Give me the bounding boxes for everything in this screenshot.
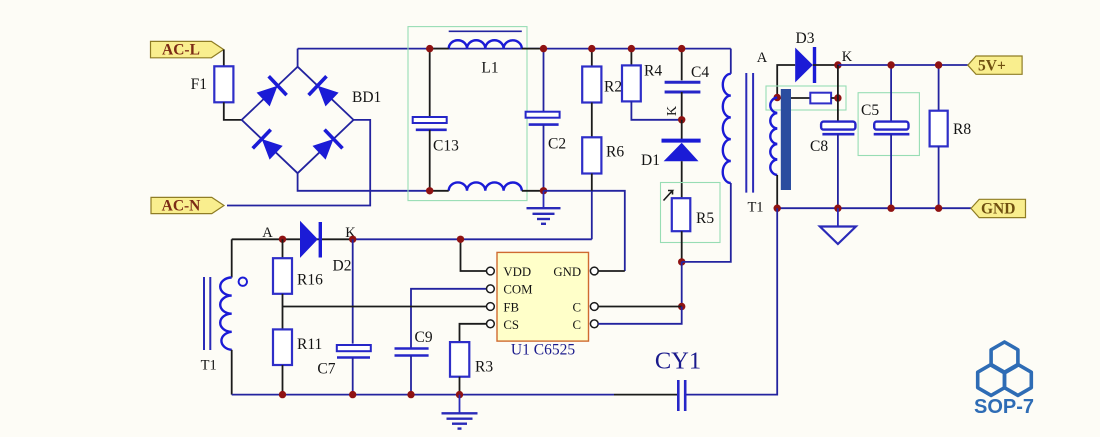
selection box around C5 bbox=[858, 93, 919, 156]
svg-text:GND: GND bbox=[981, 201, 1015, 218]
selection box around snubber resistor bbox=[766, 86, 846, 110]
bridge rectifier BD1 bbox=[242, 67, 382, 174]
junction bbox=[678, 258, 685, 265]
svg-text:C: C bbox=[573, 300, 582, 314]
svg-text:C8: C8 bbox=[810, 138, 828, 155]
ground earth under R3 bbox=[442, 395, 478, 429]
junction bbox=[588, 45, 595, 52]
svg-text:COM: COM bbox=[503, 283, 532, 297]
svg-text:D1: D1 bbox=[641, 152, 660, 169]
svg-text:K: K bbox=[842, 49, 853, 65]
svg-text:R5: R5 bbox=[696, 210, 714, 227]
junction bbox=[426, 45, 433, 52]
wire GND rail bbox=[777, 207, 971, 209]
junction bbox=[935, 61, 942, 68]
wire bbox=[223, 50, 225, 67]
selection box around L1 C13 bbox=[408, 27, 527, 201]
wire bbox=[224, 102, 242, 120]
diode BD1 top-left bbox=[257, 76, 287, 106]
junction bbox=[834, 205, 841, 212]
wire bbox=[430, 190, 449, 192]
svg-text:L1: L1 bbox=[481, 60, 498, 77]
svg-text:R11: R11 bbox=[297, 336, 322, 353]
svg-text:F1: F1 bbox=[191, 76, 207, 93]
wire bbox=[522, 190, 544, 192]
junction bbox=[887, 61, 894, 68]
port GND bbox=[971, 199, 1026, 217]
transformer T1 core bbox=[746, 73, 763, 216]
diode BD1 top-right bbox=[309, 76, 339, 106]
svg-text:C9: C9 bbox=[415, 329, 433, 346]
svg-text:R2: R2 bbox=[604, 79, 622, 96]
svg-text:AC-L: AC-L bbox=[162, 42, 200, 59]
wire K node down to C8 bbox=[837, 65, 839, 122]
svg-text:FB: FB bbox=[503, 300, 519, 314]
junction bbox=[935, 205, 942, 212]
junction bbox=[349, 391, 356, 398]
wire R2 to R6 bbox=[591, 103, 593, 138]
port AC-N bbox=[151, 197, 224, 214]
resistor R8 bbox=[930, 65, 972, 208]
wire R16 to R11 bbox=[282, 294, 284, 330]
wire bbox=[353, 238, 592, 240]
junction bbox=[540, 187, 547, 194]
svg-text:R4: R4 bbox=[644, 63, 662, 80]
wire T1 secondary top lead bbox=[777, 65, 795, 98]
svg-text:C7: C7 bbox=[317, 361, 335, 378]
wire 5V rail bbox=[838, 64, 968, 66]
transformer T1 aux winding bbox=[201, 239, 247, 394]
diode BD1 bottom-left bbox=[253, 130, 283, 160]
svg-text:K: K bbox=[665, 106, 680, 116]
logo SOP-7 bbox=[978, 342, 1032, 395]
pin C bbox=[590, 303, 598, 311]
capacitor C5 bbox=[861, 65, 909, 208]
wire return rail to R6 and GND riser bbox=[544, 191, 625, 271]
junction bbox=[279, 391, 286, 398]
transformer T1 secondary winding bbox=[770, 98, 777, 209]
wire bridge right vertex to AC-N bbox=[227, 120, 370, 206]
port 5V+ bbox=[968, 56, 1022, 75]
wire C pin upper bbox=[598, 306, 682, 308]
capacitor CY1 bbox=[655, 348, 701, 412]
capacitor C9 bbox=[395, 329, 433, 395]
svg-text:BD1: BD1 bbox=[352, 89, 381, 106]
svg-text:A: A bbox=[757, 50, 768, 66]
wire lower bottom rail bbox=[232, 394, 614, 396]
IC U1 C6525 bbox=[487, 252, 599, 358]
resistor R16 bbox=[273, 239, 323, 294]
pin FB bbox=[487, 303, 495, 311]
wire CS to R3 bbox=[460, 324, 487, 342]
svg-text:CS: CS bbox=[503, 318, 519, 332]
wire riser from return rail to lower rail bbox=[591, 191, 593, 240]
capacitor C8 bbox=[810, 122, 855, 209]
svg-text:C4: C4 bbox=[691, 64, 709, 81]
ground earth under C2 bbox=[527, 191, 561, 224]
resistor R6 bbox=[582, 137, 624, 191]
wire snubber bbox=[777, 97, 810, 99]
diode D3 bbox=[795, 30, 838, 83]
diode BD1 bottom-right bbox=[313, 130, 343, 160]
junction bbox=[834, 61, 841, 68]
svg-text:C2: C2 bbox=[548, 136, 566, 153]
inductor L1 bbox=[449, 31, 522, 191]
capacitor C4 bbox=[665, 49, 710, 120]
capacitor C2 bbox=[526, 49, 566, 191]
snubber resistor bbox=[810, 93, 838, 104]
wire top rail bbox=[298, 48, 731, 50]
resistor R4 bbox=[622, 49, 662, 102]
resistor R11 bbox=[273, 329, 322, 394]
svg-text:SOP-7: SOP-7 bbox=[974, 396, 1034, 418]
resistor R5 bbox=[664, 191, 715, 262]
svg-text:T1: T1 bbox=[201, 358, 217, 374]
wire R5 node down to C pins node bbox=[681, 262, 683, 307]
wire lower top rail bbox=[232, 238, 353, 240]
svg-text:A: A bbox=[262, 225, 273, 241]
capacitor C7 bbox=[317, 345, 370, 395]
junction bbox=[678, 45, 685, 52]
wire bbox=[522, 48, 544, 50]
wire bridge bottom to return rail bbox=[298, 173, 430, 191]
svg-text:T1: T1 bbox=[747, 200, 763, 216]
pin CS bbox=[487, 320, 495, 328]
svg-text:C: C bbox=[573, 318, 582, 332]
svg-text:C13: C13 bbox=[433, 138, 459, 155]
pin C bbox=[590, 320, 598, 328]
svg-text:R16: R16 bbox=[297, 272, 323, 289]
svg-text:U1 C6525: U1 C6525 bbox=[511, 342, 575, 359]
capacitor C13 bbox=[413, 49, 459, 191]
wire FB line bbox=[283, 306, 487, 308]
wire bbox=[430, 48, 449, 50]
wire C pin lower bbox=[598, 307, 682, 324]
wire bridge top riser bbox=[297, 49, 299, 67]
resistor R2 bbox=[582, 49, 622, 103]
diode D2 bbox=[300, 221, 351, 275]
svg-text:AC-N: AC-N bbox=[162, 198, 201, 215]
selection box around R5 bbox=[661, 183, 721, 243]
diode D1 bbox=[641, 120, 701, 198]
svg-text:R8: R8 bbox=[953, 121, 971, 138]
junction bbox=[774, 205, 781, 212]
wire R4 bottom to node K bbox=[631, 101, 681, 119]
junction bbox=[774, 94, 781, 101]
junction bbox=[678, 116, 685, 123]
junction bbox=[540, 45, 547, 52]
svg-text:CY1: CY1 bbox=[655, 348, 701, 375]
resistor R3 bbox=[450, 342, 493, 395]
junction bbox=[834, 94, 841, 101]
junction bbox=[407, 391, 414, 398]
junction bbox=[456, 391, 463, 398]
wire COM to C9 bbox=[411, 289, 487, 349]
junction VDD node bbox=[457, 236, 464, 243]
svg-text:D2: D2 bbox=[333, 258, 352, 275]
svg-text:5V+: 5V+ bbox=[978, 58, 1006, 75]
junction node K bbox=[349, 236, 356, 243]
wire VDD riser bbox=[461, 239, 487, 271]
transformer T1 primary winding bbox=[682, 49, 731, 262]
wire node K down to C7 bbox=[352, 239, 354, 343]
pin GND bbox=[590, 267, 598, 275]
transformer T1 shield bar bbox=[781, 89, 791, 190]
junction bbox=[678, 303, 685, 310]
svg-text:R3: R3 bbox=[475, 359, 493, 376]
wire secondary ground down to CY1 bbox=[685, 208, 777, 394]
svg-text:GND: GND bbox=[553, 265, 581, 279]
pin COM bbox=[487, 285, 495, 293]
junction bbox=[628, 45, 635, 52]
junction bbox=[887, 205, 894, 212]
svg-text:C5: C5 bbox=[861, 102, 879, 119]
junction bbox=[426, 187, 433, 194]
port AC-L bbox=[151, 41, 224, 58]
svg-text:R6: R6 bbox=[606, 144, 624, 161]
pin VDD bbox=[487, 267, 495, 275]
svg-text:D3: D3 bbox=[796, 30, 815, 47]
fuse F1 bbox=[191, 66, 234, 102]
wire bbox=[614, 394, 678, 396]
svg-text:VDD: VDD bbox=[503, 265, 531, 279]
ground signal triangle under C8 bbox=[820, 208, 856, 244]
junction node A bbox=[279, 236, 286, 243]
wire GND pin stub bbox=[598, 270, 625, 272]
